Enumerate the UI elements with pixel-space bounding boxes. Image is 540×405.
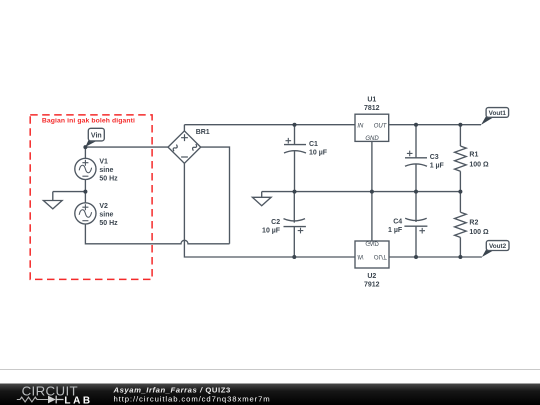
annotation box Bagian ini gak boleh diganti bbox=[30, 115, 152, 280]
wire V2 bottom to BR1 right column with hop bbox=[85, 224, 229, 244]
svg-text:U1: U1 bbox=[367, 96, 376, 103]
node C2 bottom rail bbox=[292, 255, 296, 259]
node Vin junction bbox=[83, 145, 87, 149]
svg-text:OUT: OUT bbox=[374, 253, 388, 259]
svg-text:Vin: Vin bbox=[91, 133, 102, 140]
svg-text:7812: 7812 bbox=[364, 105, 380, 112]
wire U2 GND to ground rail bbox=[371, 192, 373, 241]
svg-text:100 Ω: 100 Ω bbox=[469, 162, 489, 169]
footer bar bbox=[0, 384, 540, 405]
voltage source V1 bbox=[75, 158, 96, 179]
capacitor C3 bbox=[405, 151, 427, 167]
wire BR1 top vertex up to top rail bbox=[183, 125, 185, 131]
capacitor C1 bbox=[284, 138, 306, 153]
wire C1 leads bbox=[294, 125, 296, 192]
ground left bbox=[43, 192, 62, 209]
wire C4 leads bbox=[415, 192, 417, 257]
wire bottom rail U2 OUT to Vout2 bbox=[389, 256, 482, 258]
node R2 bottom rail bbox=[458, 255, 462, 259]
svg-text:R2: R2 bbox=[469, 220, 478, 227]
wire BR1 right terminal down to V2 return bbox=[201, 147, 230, 244]
label C3 1 uF bbox=[430, 154, 445, 170]
svg-text:1 µF: 1 µF bbox=[430, 162, 445, 169]
node C4 bottom rail bbox=[414, 255, 418, 259]
svg-text:Vout2: Vout2 bbox=[489, 243, 507, 250]
svg-text:100 Ω: 100 Ω bbox=[469, 229, 489, 236]
regulator U2 7912 bbox=[355, 241, 389, 268]
svg-text:sine: sine bbox=[99, 211, 113, 218]
flag Vout2 bbox=[482, 241, 509, 257]
svg-text:Asyam_Irfan_Farras / QUIZ3: Asyam_Irfan_Farras / QUIZ3 bbox=[113, 385, 231, 394]
label C4 1 uF bbox=[388, 219, 403, 235]
resistor R1 bbox=[455, 146, 467, 171]
svg-text:V1: V1 bbox=[99, 158, 108, 165]
wire BR1 bottom vertex to bottom rail to U2 IN bbox=[184, 163, 355, 257]
ground middle bbox=[252, 192, 271, 206]
node C3 C4 ground rail bbox=[414, 190, 418, 194]
svg-text:Bagian ini gak boleh diganti: Bagian ini gak boleh diganti bbox=[42, 118, 135, 125]
label R1 100 Ohm bbox=[469, 152, 489, 169]
label U2 7912 bbox=[364, 273, 380, 289]
label V2 sine 50 Hz bbox=[99, 203, 118, 227]
svg-text:1 µF: 1 µF bbox=[388, 227, 403, 234]
node R1 top rail bbox=[458, 123, 462, 127]
label R2 100 Ohm bbox=[469, 220, 489, 237]
voltage source V2 bbox=[75, 203, 96, 224]
svg-text:V2: V2 bbox=[99, 203, 108, 210]
svg-text:sine: sine bbox=[99, 167, 113, 174]
footer attribution text bbox=[113, 385, 271, 403]
node R1 R2 ground rail bbox=[458, 190, 462, 194]
wire top rail U1 OUT to Vout1 bbox=[389, 124, 481, 126]
svg-text:50 Hz: 50 Hz bbox=[99, 175, 118, 182]
svg-text:GND: GND bbox=[365, 136, 379, 142]
svg-text:http://circuitlab.com/cd7nq38x: http://circuitlab.com/cd7nq38xmer7m bbox=[114, 395, 271, 404]
wire middle ground rail bbox=[262, 191, 461, 193]
node U1 U2 ground rail bbox=[370, 190, 374, 194]
wire R1 leads bbox=[459, 125, 461, 192]
svg-text:C3: C3 bbox=[430, 154, 439, 161]
svg-text:Vout1: Vout1 bbox=[489, 110, 507, 117]
svg-text:IN: IN bbox=[357, 124, 364, 130]
logo CIRCUIT LAB bbox=[17, 383, 93, 405]
wire C3 leads bbox=[415, 125, 417, 192]
svg-text:C4: C4 bbox=[393, 219, 402, 226]
label V1 sine 50 Hz bbox=[99, 158, 118, 182]
node C1 C2 ground rail bbox=[293, 190, 297, 194]
wire Vin node to BR1 left terminal bbox=[85, 146, 168, 148]
svg-text:IN: IN bbox=[357, 253, 364, 259]
svg-text:50 Hz: 50 Hz bbox=[99, 220, 118, 227]
capacitor C4 bbox=[404, 218, 427, 233]
wire V1 V2 midpoint to left ground bbox=[53, 191, 86, 193]
flag Vin bbox=[85, 128, 104, 147]
node C3 top rail bbox=[414, 123, 418, 127]
wire V1 bottom through junction to V2 top bbox=[84, 180, 86, 203]
svg-text:R1: R1 bbox=[469, 152, 478, 159]
regulator U1 7812 bbox=[355, 114, 389, 141]
flag Vout1 bbox=[481, 108, 509, 125]
label U1 7812 bbox=[364, 96, 380, 112]
node C1 top rail bbox=[293, 123, 297, 127]
svg-text:10 µF: 10 µF bbox=[262, 227, 281, 234]
resistor R2 bbox=[455, 212, 467, 237]
node V1 V2 ground junction bbox=[83, 190, 87, 194]
svg-text:10 µF: 10 µF bbox=[309, 150, 328, 157]
svg-text:U2: U2 bbox=[367, 273, 376, 280]
bridge rectifier BR1 bbox=[168, 131, 201, 163]
svg-text:OUT: OUT bbox=[374, 124, 388, 130]
svg-text:BR1: BR1 bbox=[196, 129, 210, 136]
svg-text:LAB: LAB bbox=[64, 395, 92, 405]
wire R2 leads bbox=[459, 192, 461, 257]
wire C2 leads bbox=[293, 192, 295, 257]
svg-text:7912: 7912 bbox=[364, 282, 380, 289]
label C2 10 uF bbox=[262, 219, 281, 235]
svg-text:C2: C2 bbox=[271, 219, 280, 226]
capacitor C2 bbox=[284, 219, 306, 234]
wire top rail BR1 to U1 IN bbox=[184, 124, 355, 126]
label C1 10 uF bbox=[309, 141, 328, 157]
svg-text:GND: GND bbox=[365, 240, 379, 246]
svg-text:C1: C1 bbox=[309, 141, 318, 148]
wire U1 GND to ground rail bbox=[371, 141, 373, 191]
wire Vin node to V1 top bbox=[84, 147, 86, 158]
footer divider line bbox=[0, 369, 540, 370]
